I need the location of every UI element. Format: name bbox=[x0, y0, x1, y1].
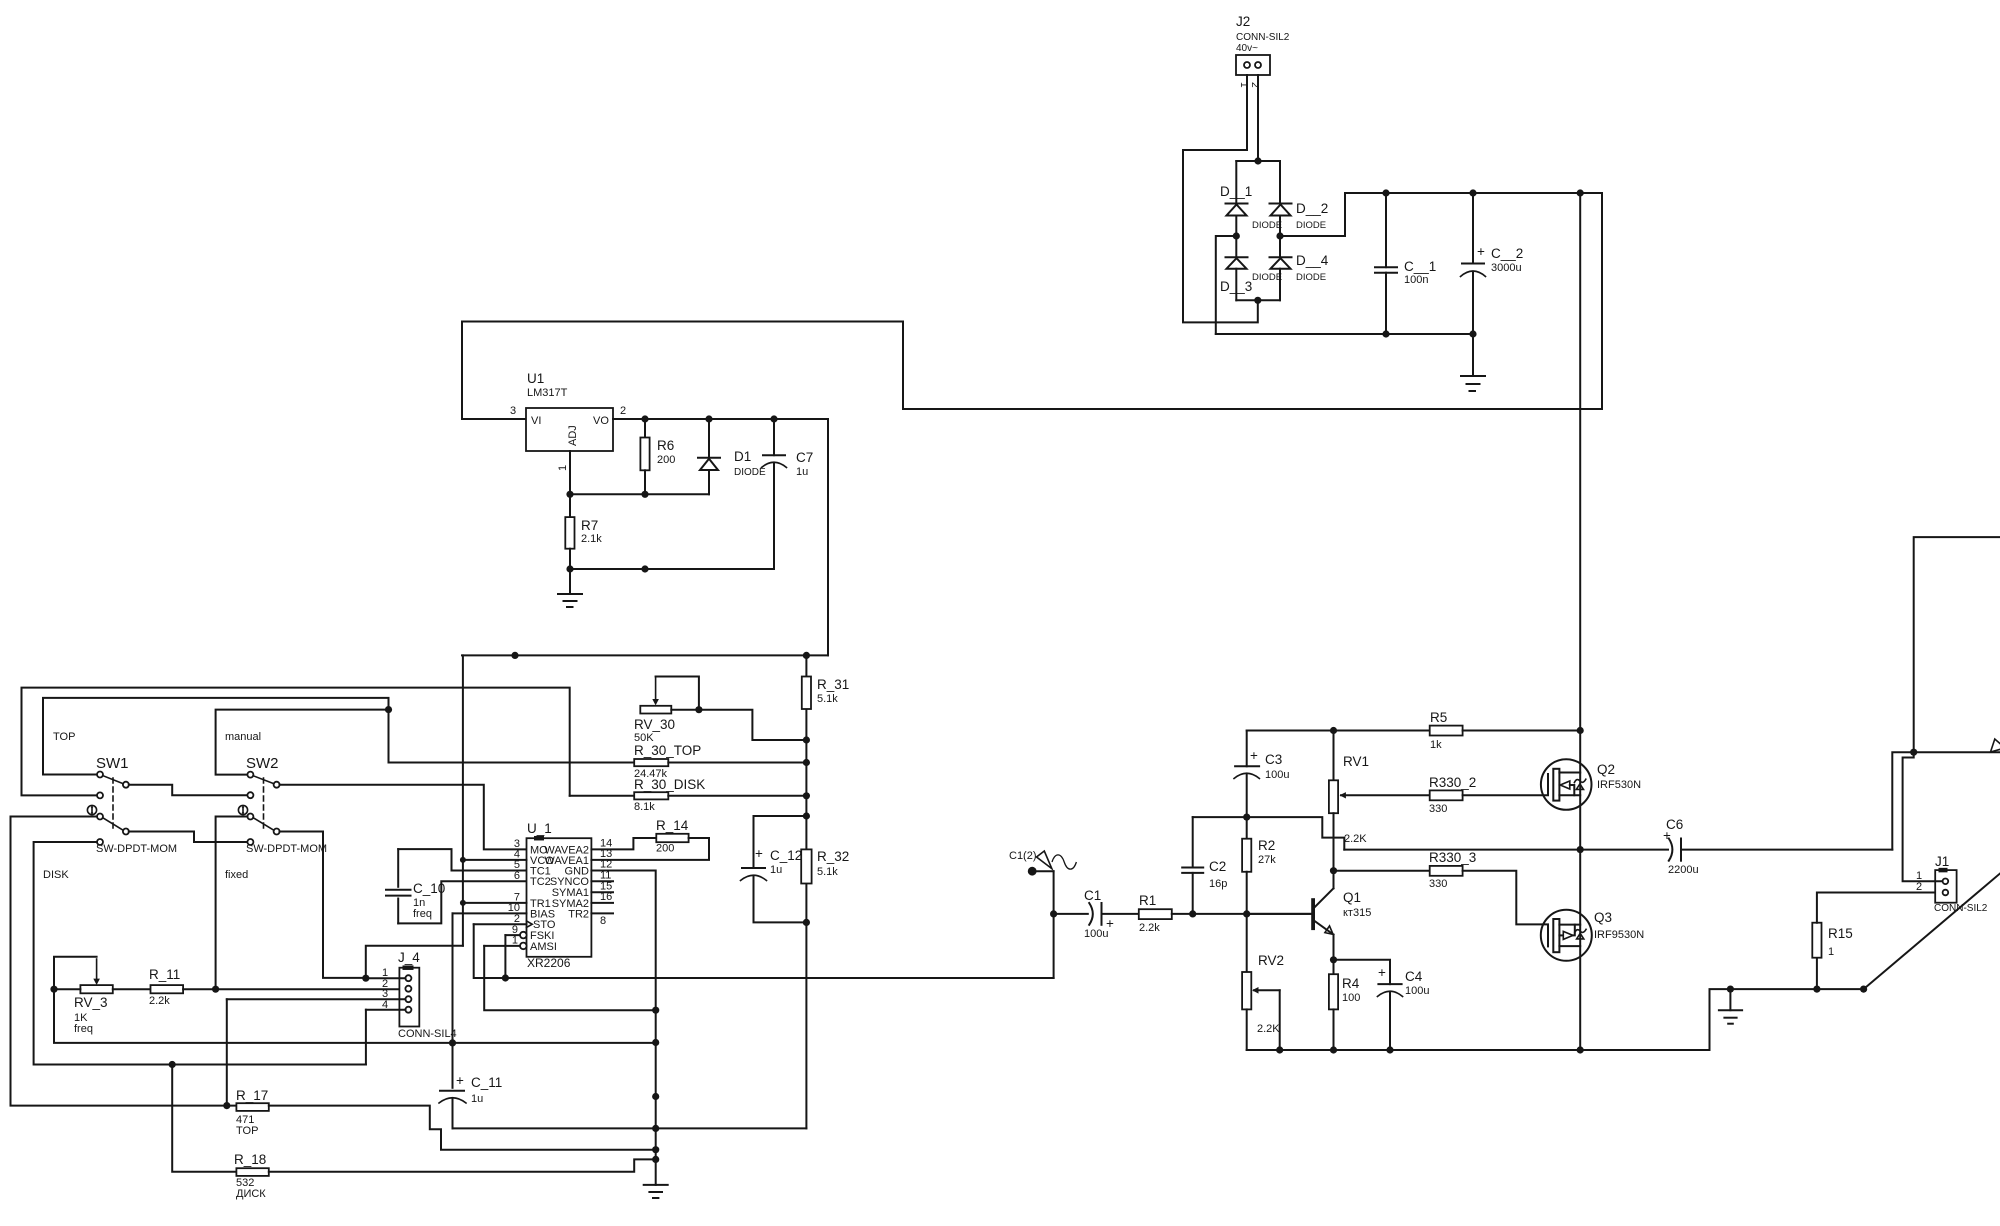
svg-text:100u: 100u bbox=[1265, 769, 1289, 781]
svg-text:8.1k: 8.1k bbox=[634, 801, 655, 813]
svg-text:Q1: Q1 bbox=[1343, 890, 1361, 905]
node R2 base bbox=[1243, 910, 1250, 917]
wire C_10 bottom to U_1 TC2 bbox=[398, 881, 526, 923]
ground below R7 bbox=[558, 569, 582, 607]
wire Q2 drain-source vertical bbox=[1579, 731, 1581, 850]
svg-text:100u: 100u bbox=[1084, 928, 1108, 940]
wire C_10 top to U_1 TC1 bbox=[398, 849, 526, 870]
wire STO vertical and run to C1 bbox=[474, 924, 1054, 978]
node pin7 bbox=[460, 900, 466, 906]
regulator U1 LM317T bbox=[510, 371, 626, 471]
resistor R5 bbox=[1430, 710, 1581, 751]
node C4 rail bbox=[1386, 1046, 1393, 1053]
svg-text:1u: 1u bbox=[796, 466, 808, 478]
svg-text:16p: 16p bbox=[1209, 878, 1227, 890]
svg-text:1k: 1k bbox=[1430, 739, 1442, 751]
wire RV_3 to BIAS net bbox=[54, 989, 656, 1043]
svg-text:C1(2): C1(2) bbox=[1009, 850, 1037, 862]
mosfet Q3 IRF9530N bbox=[1541, 910, 1644, 961]
wire U1 VO row bbox=[613, 418, 828, 420]
svg-text:R_14: R_14 bbox=[656, 818, 689, 833]
wire R7 bottom row bbox=[570, 568, 774, 570]
node bridge bottom bbox=[1254, 297, 1261, 304]
svg-text:TC2: TC2 bbox=[530, 876, 551, 888]
svg-text:freq: freq bbox=[413, 908, 432, 920]
wire DISK loop (SW1 sec1 lower contact to R_30_DISK) bbox=[22, 688, 570, 796]
node gnd-1042 bbox=[652, 1039, 659, 1046]
svg-text:RV1: RV1 bbox=[1343, 754, 1369, 769]
svg-text:330: 330 bbox=[1429, 878, 1447, 890]
node AMSI line end bbox=[652, 1007, 659, 1014]
svg-text:DIODE: DIODE bbox=[734, 467, 766, 478]
node bridge mid-left bbox=[1233, 232, 1240, 239]
node pin4 bbox=[460, 857, 466, 863]
node R_18 branch bbox=[169, 1061, 176, 1068]
svg-text:LM317T: LM317T bbox=[527, 387, 568, 399]
probe C1(2) input bbox=[1009, 850, 1076, 876]
wire R5 row bbox=[1247, 730, 1430, 732]
node output bbox=[1577, 846, 1584, 853]
svg-text:100: 100 bbox=[1342, 992, 1360, 1004]
wire bridge bottom rail bbox=[1236, 299, 1280, 301]
wire J_4 pin4 drop bbox=[365, 1010, 367, 1065]
svg-text:DIODE: DIODE bbox=[1252, 272, 1282, 283]
svg-text:SW-DPDT-MOM: SW-DPDT-MOM bbox=[96, 843, 177, 855]
resistor R1 bbox=[1139, 893, 1311, 934]
node speaker diagonal bbox=[1860, 986, 1867, 993]
svg-text:+: + bbox=[1477, 244, 1485, 259]
svg-text:2: 2 bbox=[620, 405, 626, 417]
resistor R2 bbox=[1242, 838, 1276, 972]
resistor R_30_DISK bbox=[570, 777, 807, 813]
svg-text:5.1k: 5.1k bbox=[817, 866, 838, 878]
svg-text:1: 1 bbox=[1828, 946, 1834, 958]
wire SW1 throw2 to SW2 lower contact bbox=[129, 832, 248, 843]
capacitor C__1 bbox=[1375, 193, 1436, 334]
capacitor C2 bbox=[1182, 817, 1227, 914]
diode D__2 bbox=[1270, 201, 1329, 236]
svg-text:27k: 27k bbox=[1258, 854, 1276, 866]
svg-text:ДИСК: ДИСК bbox=[236, 1188, 266, 1200]
svg-text:RV_3: RV_3 bbox=[74, 995, 108, 1010]
capacitor C_12 bbox=[741, 816, 807, 922]
node J_4 pin1 bbox=[362, 975, 369, 982]
diode D__3 bbox=[1220, 236, 1282, 300]
wire ADJ row bbox=[570, 493, 709, 495]
svg-text:manual: manual bbox=[225, 731, 261, 743]
resistor R6 bbox=[640, 419, 675, 494]
ground below C__2 bbox=[1461, 334, 1485, 391]
svg-text:R_31: R_31 bbox=[817, 677, 849, 692]
capacitor C1 bbox=[1054, 888, 1139, 940]
svg-text:R6: R6 bbox=[657, 438, 674, 453]
node R_30_TOP right bbox=[803, 759, 810, 766]
svg-text:2200u: 2200u bbox=[1668, 864, 1699, 876]
svg-text:1u: 1u bbox=[770, 864, 782, 876]
wire AMSI lead bbox=[484, 945, 520, 947]
wire speaker diagonal bbox=[1864, 874, 2000, 990]
svg-text:VI: VI bbox=[531, 415, 541, 427]
svg-text:+: + bbox=[1663, 828, 1671, 843]
svg-text:R5: R5 bbox=[1430, 710, 1447, 725]
svg-text:Q3: Q3 bbox=[1594, 910, 1612, 925]
node gnd-1096 bbox=[652, 1093, 659, 1100]
stub pin 15 SYMA1 bbox=[591, 891, 613, 893]
svg-text:D__3: D__3 bbox=[1220, 279, 1252, 294]
svg-text:R_18: R_18 bbox=[234, 1152, 266, 1167]
svg-text:C1: C1 bbox=[1084, 888, 1101, 903]
wire probe down to C1 row bbox=[1053, 871, 1055, 978]
node ADJ-R7 bbox=[566, 491, 573, 498]
svg-text:C_12: C_12 bbox=[770, 848, 802, 863]
node C_2 bottom bbox=[1469, 330, 1476, 337]
svg-text:CONN-SIL4: CONN-SIL4 bbox=[398, 1028, 457, 1040]
svg-text:J2: J2 bbox=[1236, 14, 1250, 29]
wire bridge plus output bbox=[1280, 193, 1602, 236]
diode D1 bbox=[698, 419, 766, 494]
wire C6 right riser bbox=[1892, 752, 1913, 849]
wire emitter row to C4 bbox=[1334, 960, 1391, 984]
svg-text:Q2: Q2 bbox=[1597, 762, 1615, 777]
svg-text:3: 3 bbox=[510, 405, 516, 417]
wire U1 ADJ lead bbox=[569, 451, 571, 494]
wire SW2 throw2 to J_4 pin1 bbox=[280, 832, 366, 978]
wire pin7 TR1 bbox=[463, 902, 527, 904]
node manual joins TOP drop bbox=[385, 706, 392, 713]
node C2 bottom bbox=[1189, 910, 1196, 917]
probe output flag bbox=[1991, 739, 2000, 752]
node row655 left bbox=[511, 652, 518, 659]
node Q2 drain bbox=[1577, 727, 1584, 734]
svg-text:VO: VO bbox=[593, 415, 609, 427]
svg-text:U_1: U_1 bbox=[527, 821, 552, 836]
node R_32 bottom bbox=[803, 919, 810, 926]
node gnd-1159 bbox=[652, 1156, 659, 1163]
resistor R330_2 bbox=[1429, 775, 1548, 815]
potentiometer RV2 bbox=[1242, 953, 1284, 1050]
node R15 bottom bbox=[1813, 986, 1820, 993]
wire SW2 throw1 to U_1 pin3 bbox=[280, 785, 527, 850]
svg-text:2: 2 bbox=[1916, 881, 1922, 893]
wire Q2 drain rail bbox=[1579, 193, 1581, 731]
svg-text:ADJ: ADJ bbox=[567, 425, 579, 446]
wire J_4 pin3 bbox=[227, 998, 406, 1000]
wire J_4 pin4 bbox=[366, 1009, 406, 1011]
wire main vertical 806 bbox=[805, 655, 807, 1128]
svg-text:3000u: 3000u bbox=[1491, 262, 1522, 274]
svg-text:TR2: TR2 bbox=[568, 909, 589, 921]
node R_31 top bbox=[803, 652, 810, 659]
resistor R_14 loop pins 14-13 bbox=[591, 818, 709, 860]
svg-text:200: 200 bbox=[656, 843, 674, 855]
svg-text:RV_30: RV_30 bbox=[634, 717, 675, 732]
node C1 input bbox=[1050, 910, 1057, 917]
svg-text:C4: C4 bbox=[1405, 969, 1423, 984]
ground main below U_1 bbox=[644, 1185, 668, 1198]
wire J_4 pin1 bbox=[366, 977, 406, 979]
potentiometer RV_3 bbox=[54, 957, 113, 1035]
svg-text:1u: 1u bbox=[471, 1093, 483, 1105]
svg-text:R_11: R_11 bbox=[149, 967, 180, 982]
wire bridge minus output bbox=[1216, 236, 1237, 334]
svg-text:D__1: D__1 bbox=[1220, 184, 1252, 199]
wire top right rail bbox=[1914, 537, 2000, 752]
node BIAS C_11 junction bbox=[449, 1039, 456, 1046]
node RV_30 wiper bbox=[695, 706, 702, 713]
node Q3 source rail bbox=[1577, 1046, 1584, 1053]
wire J1 pin1 riser bbox=[1903, 752, 1941, 881]
wire pin10 BIAS bbox=[453, 912, 527, 914]
wire D1 top lead bbox=[1235, 161, 1237, 204]
pin 1 AMSI bubble bbox=[520, 943, 527, 950]
svg-text:J_4: J_4 bbox=[398, 950, 420, 965]
svg-text:R330_3: R330_3 bbox=[1429, 850, 1476, 865]
wire D2 top lead bbox=[1279, 161, 1281, 204]
wire SW1 lower contact to J_4 pin4 line bbox=[34, 842, 366, 1065]
wire bottom rail bbox=[1247, 989, 1864, 1050]
svg-text:CONN-SIL2: CONN-SIL2 bbox=[1934, 903, 1988, 914]
svg-text:U1: U1 bbox=[527, 371, 544, 386]
wire J2 pin2 lead bbox=[1257, 75, 1259, 161]
svg-text:R1: R1 bbox=[1139, 893, 1156, 908]
wire to U1 VI bbox=[462, 322, 903, 420]
svg-text:+: + bbox=[1250, 748, 1258, 763]
wire pin2 STO output bbox=[474, 923, 527, 925]
capacitor C7 bbox=[762, 419, 814, 569]
svg-text:+: + bbox=[456, 1073, 464, 1088]
svg-text:5.1k: 5.1k bbox=[817, 693, 838, 705]
svg-text:IRF9530N: IRF9530N bbox=[1594, 929, 1644, 941]
svg-text:C__1: C__1 bbox=[1404, 259, 1436, 274]
svg-text:R4: R4 bbox=[1342, 976, 1360, 991]
capacitor C_11 bbox=[439, 1043, 502, 1129]
node bridge top bbox=[1254, 157, 1261, 164]
svg-text:6: 6 bbox=[514, 870, 520, 882]
resistor R_18 bbox=[172, 1065, 656, 1201]
node RV_3 left bbox=[50, 986, 57, 993]
svg-text:2.2K: 2.2K bbox=[1344, 833, 1367, 845]
capacitor C3 bbox=[1234, 731, 1289, 839]
ground right bbox=[1719, 989, 1742, 1024]
node 569 mid bbox=[641, 565, 648, 572]
svg-text:C__2: C__2 bbox=[1491, 246, 1523, 261]
node Q1 collector bbox=[1330, 867, 1337, 874]
wire feedback row 817 bbox=[1193, 817, 1345, 850]
node plus rail to Q2 bbox=[1577, 189, 1584, 196]
resistor R15 bbox=[1812, 893, 1941, 990]
node D1 top bbox=[705, 415, 712, 422]
resistor R_30_TOP bbox=[389, 743, 807, 780]
wire pin4 VCO / pin7 TR1 vertical bbox=[462, 655, 464, 945]
capacitor C_10 bbox=[386, 849, 445, 923]
svg-text:SW1: SW1 bbox=[96, 755, 129, 772]
svg-text:J1: J1 bbox=[1935, 854, 1949, 869]
pin 2 STO edge arrow bbox=[527, 921, 533, 927]
node R7 ground bbox=[566, 565, 573, 572]
svg-text:IRF530N: IRF530N bbox=[1597, 779, 1641, 791]
svg-text:DISK: DISK bbox=[43, 869, 69, 881]
wire plus rail down right side bbox=[903, 193, 1602, 409]
svg-text:+: + bbox=[1378, 965, 1386, 980]
svg-text:DIODE: DIODE bbox=[1252, 220, 1282, 231]
wire bridge top rail bbox=[1236, 160, 1280, 162]
svg-text:TOP: TOP bbox=[236, 1125, 258, 1137]
svg-text:R_32: R_32 bbox=[817, 849, 849, 864]
wire Q3 drain-source vertical bbox=[1579, 850, 1581, 1050]
svg-text:1: 1 bbox=[512, 935, 518, 947]
node C_1 bottom bbox=[1382, 330, 1389, 337]
svg-text:330: 330 bbox=[1429, 803, 1447, 815]
svg-text:R330_2: R330_2 bbox=[1429, 775, 1476, 790]
wire output probe stub bbox=[1914, 751, 2000, 753]
wire TOP loop (SW1 pole1 to R_30_TOP) bbox=[43, 698, 389, 775]
node bridge mid-right bbox=[1276, 232, 1283, 239]
svg-text:2.1k: 2.1k bbox=[581, 533, 602, 545]
svg-text:2.2k: 2.2k bbox=[1139, 922, 1160, 934]
connector J_4 bbox=[382, 950, 457, 1040]
svg-text:C3: C3 bbox=[1265, 752, 1282, 767]
svg-text:R15: R15 bbox=[1828, 926, 1853, 941]
svg-text:2.2k: 2.2k bbox=[149, 995, 170, 1007]
svg-text:AMSI: AMSI bbox=[530, 941, 557, 953]
node C_12 top bbox=[803, 812, 810, 819]
wire C_11 bottom to gnd and 806 drop bbox=[453, 1127, 807, 1129]
resistor R_32 bbox=[801, 849, 849, 884]
wire output row bbox=[1344, 849, 1668, 851]
diode D__1 bbox=[1220, 184, 1282, 236]
wire pin12 GND down bbox=[591, 871, 655, 1185]
capacitor C__2 bbox=[1461, 193, 1524, 334]
pin 9 FSKI stub bbox=[505, 934, 520, 936]
diode D__4 bbox=[1270, 236, 1329, 300]
svg-text:C7: C7 bbox=[796, 450, 813, 465]
node R_11 SW2 junction bbox=[212, 986, 219, 993]
svg-text:D__2: D__2 bbox=[1296, 201, 1328, 216]
svg-text:+: + bbox=[755, 846, 763, 861]
node gnd-1128 bbox=[652, 1125, 659, 1132]
wire R330_3 row bbox=[1334, 870, 1430, 872]
node R6 top bbox=[641, 415, 648, 422]
resistor R4 bbox=[1329, 960, 1360, 1050]
svg-text:40v~: 40v~ bbox=[1236, 43, 1258, 54]
wire AMSI drop to gnd net bbox=[484, 946, 656, 1010]
stub pin 8 TR2 bbox=[591, 912, 613, 914]
svg-text:8: 8 bbox=[600, 915, 606, 927]
capacitor C4 bbox=[1377, 965, 1429, 1050]
pin 9 FSKI bubble bbox=[520, 932, 527, 939]
resistor R_11 bbox=[113, 967, 406, 1007]
node C3 bottom R2 top bbox=[1243, 814, 1250, 821]
svg-text:кт315: кт315 bbox=[1343, 907, 1371, 919]
wire regulated output row bbox=[462, 654, 828, 656]
capacitor C6 bbox=[1663, 817, 1892, 876]
transistor Q1 bbox=[1247, 888, 1372, 960]
svg-text:XR2206: XR2206 bbox=[527, 956, 571, 970]
wire manual loop (SW2 pole1) bbox=[216, 710, 389, 775]
connector J1 bbox=[1916, 854, 1988, 914]
resistor R_31 bbox=[802, 677, 849, 710]
svg-text:SW2: SW2 bbox=[246, 755, 279, 772]
node FSKI-STO bbox=[502, 974, 509, 981]
node right gnd bbox=[1727, 986, 1734, 993]
wire SW1 throw1 to SW2 contact bbox=[129, 785, 248, 796]
svg-text:R_30_TOP: R_30_TOP bbox=[634, 743, 701, 758]
potentiometer RV1 bbox=[1329, 731, 1430, 889]
node C_2 top bbox=[1469, 189, 1476, 196]
svg-text:CONN-SIL2: CONN-SIL2 bbox=[1236, 32, 1290, 43]
mosfet Q2 IRF530N bbox=[1541, 759, 1641, 810]
wire J_4 pin3 down to R_17 bbox=[226, 999, 228, 1105]
resistor R_17 bbox=[236, 1088, 656, 1150]
svg-text:100u: 100u bbox=[1405, 985, 1429, 997]
wire BIAS vertical bbox=[452, 913, 454, 1043]
svg-text:SW-DPDT-MOM: SW-DPDT-MOM bbox=[246, 843, 327, 855]
node RV1 top bbox=[1330, 727, 1337, 734]
wire FSKI drop to STO line bbox=[504, 935, 506, 978]
svg-text:TOP: TOP bbox=[53, 731, 75, 743]
switch SW2 bbox=[238, 755, 327, 855]
svg-text:freq: freq bbox=[74, 1023, 93, 1035]
svg-text:R_30_DISK: R_30_DISK bbox=[634, 777, 705, 792]
switch SW1 bbox=[87, 755, 177, 855]
wire VO corner down bbox=[827, 419, 829, 655]
node RV2 wiper rail bbox=[1276, 1046, 1283, 1053]
connector J2 bbox=[1236, 14, 1290, 88]
wire J2 pin1 lead bbox=[1246, 75, 1248, 150]
node C_1 top bbox=[1382, 189, 1389, 196]
node R_31 bottom bbox=[803, 736, 810, 743]
svg-text:+: + bbox=[1106, 916, 1114, 931]
resistor R330_3 bbox=[1429, 850, 1548, 924]
svg-text:DIODE: DIODE bbox=[1296, 220, 1326, 231]
svg-text:R_17: R_17 bbox=[236, 1088, 268, 1103]
svg-text:100n: 100n bbox=[1404, 274, 1428, 286]
IC U_1 XR2206 bbox=[508, 821, 613, 970]
svg-text:200: 200 bbox=[657, 454, 675, 466]
potentiometer RV_30 bbox=[634, 677, 806, 745]
svg-text:R7: R7 bbox=[581, 518, 598, 533]
wire J_4 pin1 to U_1 TR1 net bbox=[366, 946, 463, 978]
node R_30_DISK right bbox=[803, 792, 810, 799]
wire dc minus rail bbox=[1216, 333, 1473, 335]
svg-text:2.2K: 2.2K bbox=[1257, 1023, 1280, 1035]
wire pin4 VCO bbox=[463, 859, 527, 861]
svg-text:D__4: D__4 bbox=[1296, 253, 1329, 268]
svg-text:1: 1 bbox=[557, 465, 569, 471]
node pin3 on R_17 wire bbox=[223, 1102, 230, 1109]
svg-text:D1: D1 bbox=[734, 449, 751, 464]
svg-text:C_11: C_11 bbox=[471, 1075, 502, 1090]
resistor R7 bbox=[565, 494, 602, 569]
stub pin 16 SYMA2 bbox=[591, 902, 613, 904]
wire SW2 pole2 down to R_11 row bbox=[216, 817, 248, 990]
wire J2 pin1 to bridge bottom bbox=[1183, 150, 1258, 322]
svg-text:RV2: RV2 bbox=[1258, 953, 1284, 968]
wire SW1 pole2 to R_17 bbox=[11, 817, 237, 1106]
node gnd-1149 bbox=[652, 1146, 659, 1153]
node C7 top bbox=[770, 415, 777, 422]
node R6 bottom bbox=[641, 491, 648, 498]
node output right bbox=[1910, 749, 1917, 756]
svg-text:R2: R2 bbox=[1258, 838, 1275, 853]
svg-text:DIODE: DIODE bbox=[1296, 272, 1326, 283]
stub pin 11 SYNCO bbox=[591, 880, 613, 882]
svg-text:fixed: fixed bbox=[225, 869, 248, 881]
node Q1 emitter bbox=[1330, 956, 1337, 963]
svg-text:C2: C2 bbox=[1209, 859, 1226, 874]
node R4 rail bbox=[1330, 1046, 1337, 1053]
